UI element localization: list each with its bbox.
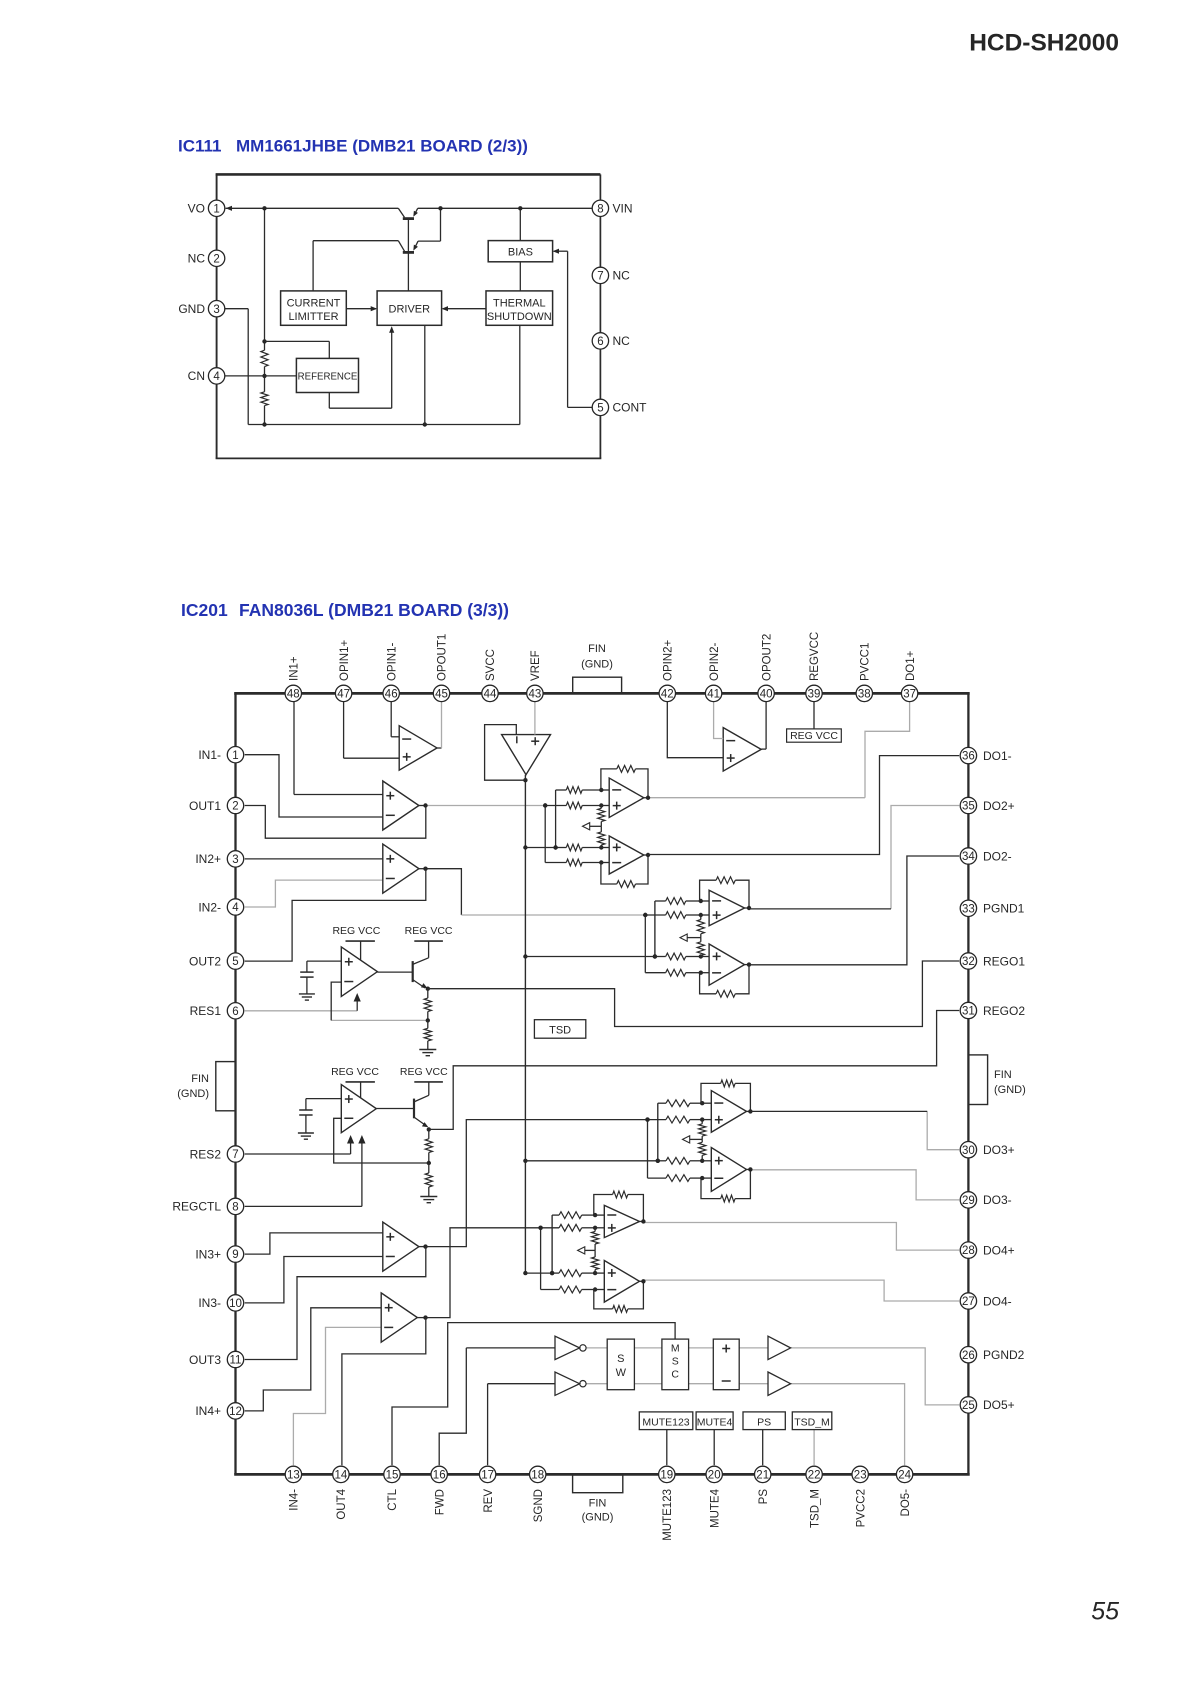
svg-text:DO2+: DO2+ [983,799,1015,813]
svg-text:IN2-: IN2- [198,900,221,914]
svg-text:OUT3: OUT3 [189,1353,221,1367]
svg-text:11: 11 [230,1355,242,1367]
svg-text:OUT2: OUT2 [189,954,221,968]
svg-text:IN4-: IN4- [289,1489,301,1511]
svg-text:35: 35 [962,801,975,813]
svg-text:27: 27 [962,1296,975,1308]
svg-text:29: 29 [962,1195,975,1207]
svg-text:6: 6 [232,1006,238,1018]
svg-text:DRIVER: DRIVER [389,304,431,316]
svg-text:37: 37 [903,689,916,701]
svg-text:6: 6 [597,336,603,348]
svg-text:DO5-: DO5- [900,1489,912,1517]
svg-text:16: 16 [433,1470,446,1482]
svg-text:42: 42 [661,689,674,701]
svg-text:1: 1 [232,750,238,762]
svg-text:39: 39 [808,689,821,701]
svg-text:NC: NC [188,252,206,266]
svg-text:S: S [617,1353,624,1365]
svg-text:26: 26 [962,1350,975,1362]
svg-text:(GND): (GND) [177,1088,209,1100]
svg-text:DO3+: DO3+ [983,1143,1015,1157]
svg-text:TSD: TSD [549,1024,571,1036]
svg-text:THERMAL: THERMAL [493,298,546,310]
svg-text:PGND2: PGND2 [983,1348,1025,1362]
svg-text:33: 33 [962,903,975,915]
svg-text:25: 25 [962,1400,975,1412]
svg-text:OPIN1-: OPIN1- [386,642,398,681]
svg-text:21: 21 [756,1470,769,1482]
svg-text:5: 5 [597,403,603,415]
svg-text:DO4+: DO4+ [983,1243,1015,1257]
svg-text:DO1+: DO1+ [905,650,917,681]
svg-text:RES2: RES2 [190,1147,222,1161]
svg-text:47: 47 [337,689,350,701]
svg-text:32: 32 [962,956,975,968]
svg-text:55: 55 [1091,1598,1119,1626]
svg-text:8: 8 [232,1202,238,1214]
svg-text:40: 40 [760,689,773,701]
svg-text:FIN: FIN [191,1073,209,1085]
svg-text:SVCC: SVCC [485,649,497,681]
svg-text:4: 4 [213,371,220,383]
svg-text:W: W [616,1367,627,1379]
svg-text:(GND): (GND) [582,1512,614,1524]
svg-text:MUTE4: MUTE4 [697,1416,733,1428]
svg-text:REG VCC: REG VCC [332,925,380,937]
svg-text:8: 8 [597,203,603,215]
svg-text:REG VCC: REG VCC [405,925,453,937]
svg-text:FAN8036L (DMB21 BOARD (3/3)): FAN8036L (DMB21 BOARD (3/3)) [239,600,509,620]
svg-text:VIN: VIN [613,202,633,216]
svg-text:45: 45 [435,689,448,701]
svg-text:PGND1: PGND1 [983,902,1025,916]
svg-text:41: 41 [707,689,720,701]
svg-text:30: 30 [962,1145,975,1157]
svg-text:20: 20 [708,1470,721,1482]
svg-text:CN: CN [188,369,205,383]
svg-text:15: 15 [386,1470,399,1482]
svg-text:DO2-: DO2- [983,849,1012,863]
svg-text:24: 24 [898,1470,911,1482]
svg-text:CTL: CTL [387,1488,399,1510]
svg-text:(GND): (GND) [581,659,613,671]
svg-text:3: 3 [213,304,219,316]
svg-text:34: 34 [962,851,975,863]
svg-text:REG VCC: REG VCC [400,1066,448,1078]
svg-text:REGVCC: REGVCC [809,632,821,681]
svg-text:CURRENT: CURRENT [287,298,341,310]
svg-text:IN2+: IN2+ [195,852,221,866]
svg-text:44: 44 [484,689,497,701]
svg-text:FWD: FWD [434,1489,446,1515]
svg-text:IN1-: IN1- [198,748,221,762]
svg-text:FIN: FIN [589,1498,607,1510]
svg-text:IN4+: IN4+ [195,1404,221,1418]
svg-text:19: 19 [660,1470,673,1482]
svg-text:17: 17 [481,1470,494,1482]
svg-text:PVCC1: PVCC1 [860,643,872,681]
svg-text:18: 18 [531,1470,544,1482]
svg-text:TSD_M: TSD_M [809,1489,821,1528]
svg-text:REG VCC: REG VCC [790,730,838,742]
svg-text:46: 46 [385,689,398,701]
svg-text:OPOUT1: OPOUT1 [437,634,449,681]
svg-text:2: 2 [232,801,238,813]
svg-text:NC: NC [613,269,631,283]
svg-text:3: 3 [232,854,238,866]
svg-text:GND: GND [178,302,205,316]
svg-text:HCD-SH2000: HCD-SH2000 [969,30,1119,57]
svg-text:5: 5 [232,956,238,968]
svg-text:12: 12 [229,1406,242,1418]
svg-text:PS: PS [758,1489,770,1505]
svg-text:FIN: FIN [994,1069,1012,1081]
svg-text:PVCC2: PVCC2 [855,1489,867,1527]
svg-text:M: M [671,1343,680,1355]
svg-text:REGO2: REGO2 [983,1004,1025,1018]
svg-text:7: 7 [597,271,603,283]
svg-text:OPIN2+: OPIN2+ [663,639,675,681]
svg-text:CONT: CONT [613,401,648,415]
svg-text:SGND: SGND [533,1489,545,1522]
svg-text:38: 38 [858,689,871,701]
svg-text:(GND): (GND) [994,1084,1026,1096]
svg-text:VREF: VREF [530,650,542,681]
svg-text:OUT4: OUT4 [336,1488,348,1519]
svg-text:36: 36 [962,751,975,763]
svg-text:REV: REV [483,1489,495,1513]
svg-text:REG VCC: REG VCC [331,1066,379,1078]
svg-text:IN1+: IN1+ [289,656,301,681]
svg-text:SHUTDOWN: SHUTDOWN [487,311,552,323]
svg-text:IC111: IC111 [178,137,222,156]
svg-text:10: 10 [229,1298,242,1310]
svg-text:LIMITTER: LIMITTER [288,311,338,323]
svg-text:REFERENCE: REFERENCE [298,372,358,383]
svg-text:43: 43 [529,689,542,701]
svg-text:PS: PS [757,1416,771,1428]
svg-text:REGCTL: REGCTL [172,1200,221,1214]
svg-text:31: 31 [962,1006,975,1018]
svg-text:IC201: IC201 [181,600,228,620]
svg-text:MUTE123: MUTE123 [642,1416,689,1428]
svg-text:OPOUT2: OPOUT2 [761,634,773,681]
svg-text:REGO1: REGO1 [983,954,1025,968]
svg-text:DO1-: DO1- [983,749,1012,763]
svg-text:C: C [671,1369,679,1381]
svg-text:2: 2 [213,253,219,265]
svg-text:BIAS: BIAS [508,247,533,259]
svg-text:RES1: RES1 [190,1004,222,1018]
svg-text:7: 7 [232,1149,238,1161]
svg-text:S: S [672,1356,679,1368]
svg-text:MUTE123: MUTE123 [662,1489,674,1541]
svg-text:23: 23 [854,1470,867,1482]
svg-text:DO5+: DO5+ [983,1398,1015,1412]
svg-text:1: 1 [213,203,219,215]
svg-text:DO4-: DO4- [983,1294,1012,1308]
svg-text:MUTE4: MUTE4 [709,1488,721,1528]
svg-text:FIN: FIN [588,643,606,655]
svg-text:OPIN1+: OPIN1+ [339,639,351,681]
svg-text:IN3-: IN3- [198,1296,221,1310]
svg-text:IN3+: IN3+ [195,1247,221,1261]
svg-text:28: 28 [962,1245,975,1257]
svg-text:13: 13 [287,1470,300,1482]
svg-text:NC: NC [613,334,631,348]
svg-text:MM1661JHBE (DMB21 BOARD (2/3)): MM1661JHBE (DMB21 BOARD (2/3)) [236,137,528,156]
svg-text:OPIN2-: OPIN2- [709,642,721,681]
svg-text:DO3-: DO3- [983,1193,1012,1207]
svg-text:4: 4 [232,902,239,914]
svg-text:22: 22 [808,1470,821,1482]
svg-text:14: 14 [335,1470,348,1482]
svg-text:48: 48 [287,689,300,701]
svg-text:VO: VO [188,202,205,216]
svg-text:TSD_M: TSD_M [794,1416,830,1428]
svg-text:OUT1: OUT1 [189,799,221,813]
svg-text:9: 9 [232,1249,238,1261]
